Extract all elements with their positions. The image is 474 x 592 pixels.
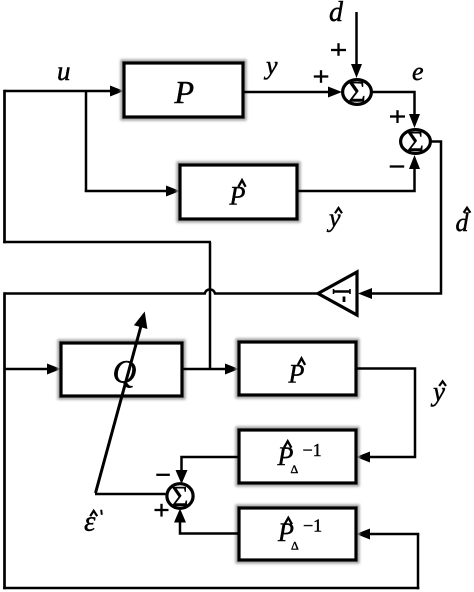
wire diagonal adaptation arrow: [96, 326, 142, 493]
wire Phat2 output to PhatDelta1: [356, 369, 415, 458]
block P: [122, 61, 245, 119]
node minus sign sum3: [156, 474, 170, 476]
wire PhatDelta2 output to sum3 bottom: [180, 521, 239, 534]
wire bottom horizontal: [3, 587, 419, 590]
wire u arrow into P: [110, 86, 124, 97]
svg-text:y: y: [263, 51, 278, 80]
sum junction S1: [343, 80, 372, 105]
block PhatDelta1: [237, 428, 358, 485]
wire arrow into PhatDelta1: [356, 452, 370, 463]
svg-text:P: P: [288, 360, 305, 389]
wire PhatDelta1 output to sum3 top: [182, 457, 240, 471]
node plus sign sum1 left: [314, 70, 329, 83]
wire into Q: [5, 368, 54, 371]
svg-text:P: P: [174, 74, 195, 110]
block PhatDelta2: [237, 506, 358, 562]
svg-text:Σ: Σ: [348, 76, 365, 109]
sum junction S3: [167, 484, 193, 509]
svg-text:−1: −1: [303, 516, 322, 536]
node epsilon-hat label: [84, 506, 102, 538]
wire into PhatDelta2: [364, 533, 419, 536]
wire Phat1 output to sum2 bottom: [297, 167, 415, 191]
node plus sign d: [331, 43, 346, 56]
wire u branch vertical x=86: [85, 91, 88, 192]
svg-text:d: d: [456, 208, 470, 237]
svg-text:Δ: Δ: [291, 538, 299, 552]
sum junction S2: [401, 130, 431, 154]
wire arrow into sum2 bottom: [409, 155, 420, 169]
node dhat label: [456, 208, 471, 237]
svg-text:e: e: [412, 57, 424, 86]
wire d input vertical: [355, 12, 358, 64]
svg-text:Σ: Σ: [407, 126, 424, 158]
wire arrow into sum2 top: [409, 114, 420, 128]
wire left vertical upper: [3, 90, 6, 243]
node minus sign sum2 bottom: [390, 165, 405, 167]
wire branch to Phat1: [85, 190, 172, 193]
svg-text:Δ: Δ: [291, 462, 299, 476]
wire arrow into Phat1: [166, 186, 180, 197]
wire P output to sum1: [243, 91, 334, 94]
wire arrow into sum1: [328, 87, 342, 98]
wire vertical x=210 (Q output up to u loop): [209, 242, 212, 370]
wire inverter output left (with hop): [5, 289, 319, 293]
svg-text:d: d: [329, 0, 344, 28]
block Phat1: [178, 163, 299, 221]
svg-text:P: P: [229, 182, 246, 211]
wire sum1 output e: [373, 92, 415, 116]
wire arrow into sum3 top: [176, 470, 188, 484]
node plus sign sum2 top: [390, 110, 405, 123]
wire Q output to Phat2: [182, 368, 231, 371]
wire arrow into PhatDelta2: [356, 529, 370, 540]
wire arrow d into sum1: [351, 64, 362, 78]
wire sum3 output to diagonal: [95, 493, 166, 496]
svg-text:Σ: Σ: [172, 481, 189, 513]
node plus sign sum3: [155, 504, 169, 517]
wire arrow into inverter: [358, 288, 372, 299]
op-amp inverter -1: [318, 272, 357, 315]
svg-text:−1: −1: [303, 440, 322, 460]
node yhat2 label: [430, 377, 446, 407]
wire arrow into sum3 bottom: [174, 509, 186, 523]
svg-text:u: u: [57, 56, 71, 86]
wire arrow into Phat2: [225, 364, 239, 375]
wire bottom right vertical: [417, 534, 420, 589]
wire arrow into Q: [47, 364, 61, 375]
node yhat1 label: [326, 204, 342, 233]
wire left vertical lower: [3, 292, 6, 589]
wire sum2 output dhat: [362, 142, 441, 294]
block Phat2: [237, 340, 358, 397]
wire horizontal y=242: [3, 241, 211, 244]
block Q: [59, 341, 184, 398]
wire u feedback horizontal top: [5, 90, 117, 93]
